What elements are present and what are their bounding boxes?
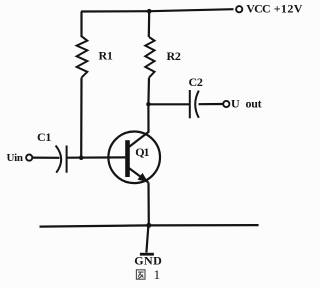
junction node top rail / R2 [147,9,152,14]
label U out [231,96,262,110]
svg-text:GND: GND [134,254,162,268]
svg-text:U: U [231,96,240,110]
svg-text:C2: C2 [189,75,203,89]
capacitor C1 [56,146,67,173]
resistor R1 [77,36,88,77]
junction node ground rail [146,223,151,228]
wire top rail VCC [81,9,234,11]
wire R2 top lead [148,11,151,37]
wire R2 bottom lead to collector [147,78,150,133]
label R2 [167,49,181,63]
wire R1 bottom lead [80,78,83,158]
svg-text:R1: R1 [99,48,113,62]
label C1 [37,130,51,144]
resistor R2 [145,37,154,78]
wire ground rail [40,225,259,227]
svg-text:+12V: +12V [274,2,303,16]
svg-text:C1: C1 [37,130,51,144]
label VCC +12V [246,2,303,16]
transistor Q1 [108,132,160,184]
wire C2 to output terminal [199,103,223,105]
junction node R1 / base [79,155,84,160]
U out terminal [223,101,229,107]
label GND [134,254,162,268]
caption figure 1 (Chinese tu) [136,267,160,282]
junction node C2 tap [146,102,150,106]
svg-text:Uin: Uin [7,152,23,164]
wire emitter to ground rail [147,183,150,226]
svg-text:out: out [246,96,262,110]
svg-text:Q1: Q1 [135,145,149,159]
label Uin [7,152,23,164]
capacitor C2 [190,90,199,118]
VCC terminal [236,6,242,12]
Uin terminal [26,155,32,161]
label C2 [189,75,203,89]
label R1 [99,48,113,62]
wire C1 to base [67,156,125,159]
svg-text:1: 1 [154,267,161,282]
wire to C2 [148,103,189,105]
svg-text:R2: R2 [167,49,181,63]
wire ground stem [146,225,148,252]
ground GND [140,253,154,256]
wire R1 top lead [80,12,82,38]
svg-text:VCC: VCC [246,2,270,16]
label Q1 [135,145,149,159]
wire Uin to C1 [33,157,60,159]
